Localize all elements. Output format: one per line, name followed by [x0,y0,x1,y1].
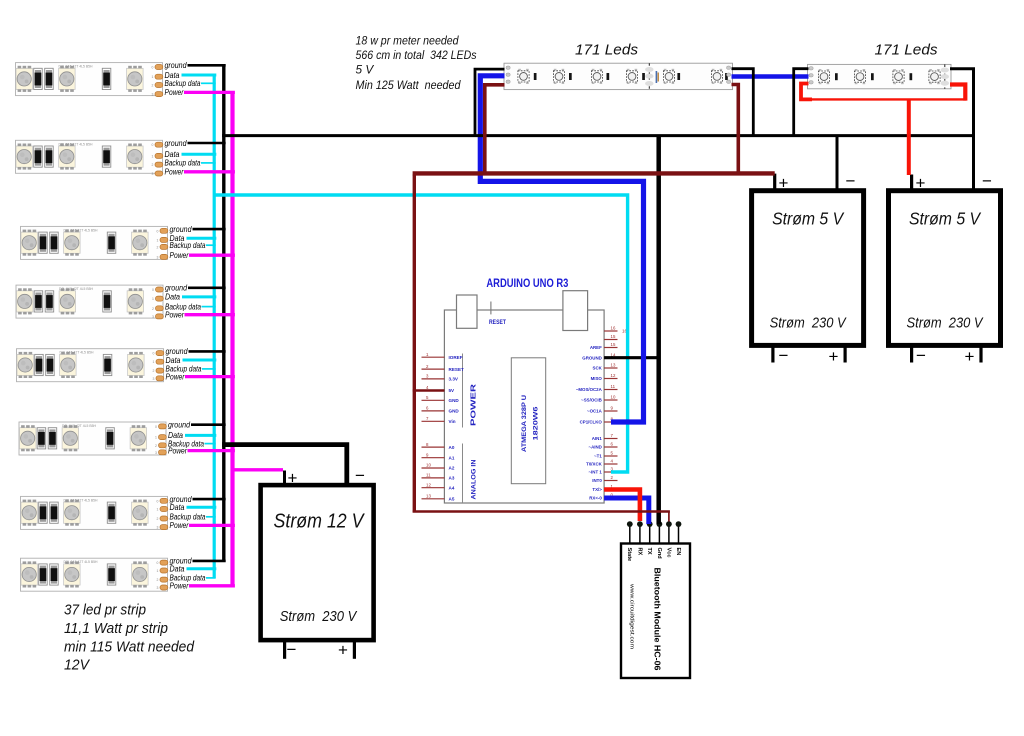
svg-text:0: 0 [152,66,154,70]
wire Data stub S1 [182,74,217,77]
svg-text:ground: ground [165,284,187,293]
svg-text:15: 15 [611,334,616,339]
svg-text:13: 13 [426,494,431,499]
wire Power stub S2 [184,170,235,173]
svg-text:16: 16 [611,326,616,331]
svg-text:~INT 1: ~INT 1 [588,470,602,475]
svg-text:~OC1A: ~OC1A [587,409,603,414]
wire ground stub S5 [189,350,226,353]
LED strip S7 [21,496,168,529]
wire Data stub S4 [182,295,216,298]
svg-text:+: + [965,347,975,366]
svg-text:2: 2 [157,578,159,582]
svg-text:+: + [779,174,789,193]
svg-text:3: 3 [152,93,154,97]
Arduino left pin stubs, numbers and labels [422,352,465,502]
wire Data stub S5 [183,359,217,362]
svg-text:Strøm 230 V: Strøm 230 V [907,315,984,331]
svg-text:Data: Data [165,150,180,159]
wire Backup-data stub S2 [201,162,216,164]
LED strip S3 [21,226,168,259]
power supply Str&#248;m 5 V (right) [889,191,1001,346]
annotation bottom 12V strip note [64,603,195,674]
svg-text:Data: Data [170,565,185,574]
svg-text:Data: Data [170,503,185,512]
svg-text:Data: Data [165,293,180,302]
wire maroon lower rail to BT Vcc [413,510,670,512]
svg-text:1820W6: 1820W6 [534,406,540,441]
LED strip T2 (171 Leds) [808,64,952,88]
wire blue strip T1 to strip T2 [732,74,809,78]
svg-text:Backup data: Backup data [165,79,201,88]
svg-text:State: State [626,548,632,562]
svg-text:5 V: 5 V [356,62,375,76]
wire red strip T2 loop [801,84,812,100]
wire Power stub S5 [185,375,235,378]
pin labels strip S1: ground Data Backup-data Power [165,61,201,97]
wire black ground bus vertical [222,65,225,561]
wire black to 12V supply - [222,445,347,486]
svg-text:Backup data: Backup data [165,159,201,168]
wire maroon to Arduino 5V pin [413,389,445,392]
Arduino power jack [563,291,588,331]
svg-text:www.circuitdigest.com: www.circuitdigest.com [629,584,635,649]
svg-text:1: 1 [153,360,155,364]
svg-text:Power: Power [170,582,189,591]
svg-text:3: 3 [153,377,155,381]
wire Power stub S4 [185,313,235,316]
svg-text:A1: A1 [449,455,455,460]
wire ground stub S7 [193,498,226,501]
svg-text:Gnd: Gnd [656,548,662,560]
svg-text:GND: GND [449,398,460,403]
svg-text:Power: Power [170,521,189,530]
wire Power stub S7 [189,524,235,527]
svg-text:566 cm in total 342 LEDs: 566 cm in total 342 LEDs [356,48,477,62]
svg-text:GND: GND [449,409,460,414]
wire maroon 5V rail vertical [413,175,416,513]
pin labels strip S3: ground Data Backup-data Power [170,225,206,260]
wire black strip T1 left to bus [475,69,505,136]
svg-text:EN: EN [675,548,681,556]
power supply Str&#248;m 12 V [261,485,374,640]
wire black bus to PSU1 - [836,135,839,191]
svg-text:CP1/CLKO: CP1/CLKO [580,420,603,425]
svg-text:A3: A3 [449,476,455,481]
wire black strip T2 left to bus [794,69,809,136]
svg-text:+: + [288,468,298,487]
svg-text:ANALOG IN: ANALOG IN [472,460,478,500]
svg-text:~AIND: ~AIND [589,445,602,450]
svg-text:Power: Power [165,168,184,177]
wire maroon strip T1 left [485,85,505,172]
pin labels strip S5: ground Data Backup-data Power [166,347,202,381]
svg-text:Vin: Vin [449,419,456,424]
svg-text:12: 12 [611,373,616,378]
Arduino USB connector [457,295,478,328]
svg-text:0: 0 [157,561,159,565]
svg-text:~MOS/OC2A: ~MOS/OC2A [576,387,603,392]
svg-text:0: 0 [152,143,154,147]
svg-text:12V: 12V [64,658,90,674]
wire Backup-data stub S3 [206,244,216,246]
LED strip T1 (171 Leds) [504,63,733,89]
LED strip S4 [16,285,163,319]
LED strip S1 [16,63,163,97]
svg-text:−: − [846,172,856,191]
svg-text:POWER: POWER [471,384,478,426]
svg-text:Power: Power [165,88,184,97]
svg-text:1: 1 [152,154,154,158]
svg-text:171 Leds: 171 Leds [875,42,938,59]
svg-text:ground: ground [165,139,187,148]
svg-text:SCK: SCK [593,366,603,371]
svg-text:0: 0 [155,425,157,429]
wire ground stub S6 [191,423,226,426]
wire ground stub S3 [193,228,226,231]
svg-text:Power: Power [165,311,184,320]
wire Backup-data stub S5 [202,368,216,370]
svg-text:~T1: ~T1 [594,454,602,459]
svg-text:RESET: RESET [489,320,506,326]
svg-text:Strøm 230 V: Strøm 230 V [770,315,847,331]
wire red to PSU2 + [907,99,911,175]
svg-text:3: 3 [152,315,154,319]
svg-text:10: 10 [611,395,616,400]
svg-text:1: 1 [152,297,154,301]
wire cyan Data bus vertical [213,75,216,578]
wire Data stub S6 [185,434,216,437]
ANALOG IN group bracket [462,444,464,504]
svg-text:1: 1 [157,238,159,242]
wire Backup-data stub S1 [201,82,216,84]
wire Backup-data stub S4 [202,306,216,308]
svg-text:−: − [982,172,992,191]
svg-text:Min 125 Watt needed: Min 125 Watt needed [356,78,461,92]
LED strip S6 [19,422,166,455]
svg-text:2: 2 [153,369,155,373]
svg-text:3.3V: 3.3V [449,377,459,382]
pin labels strip S7: ground Data Backup-data Power [170,495,206,530]
svg-text:2: 2 [157,245,159,249]
svg-text:RX: RX [636,548,642,556]
svg-text:0: 0 [157,229,159,233]
svg-text:1: 1 [157,508,159,512]
LED strip S8 [21,558,168,591]
wire ground stub S8 [193,560,226,563]
svg-text:3: 3 [155,451,157,455]
Arduino reset button [490,302,492,315]
wire red Arduino TX to BT RX [604,490,640,522]
pin labels strip S6: ground Data Backup-data Power [168,421,204,456]
svg-text:+: + [338,641,348,660]
svg-text:TX/>: TX/> [592,487,602,492]
svg-text:A5: A5 [449,497,455,502]
wire black strip T1 right to bus [732,69,754,136]
Bluetooth pins State RX TX Gnd Vcc EN [626,521,681,561]
wire Power stub S3 [189,254,235,257]
PSU1 terminals [773,172,856,367]
svg-text:+: + [916,174,926,193]
svg-text:171 Leds: 171 Leds [575,42,638,59]
svg-text:ARDUINO UNO R3: ARDUINO UNO R3 [486,278,568,290]
wire Power stub S1 [184,91,235,94]
svg-text:5V: 5V [449,388,456,393]
svg-text:1: 1 [152,75,154,79]
svg-text:−: − [355,466,365,485]
svg-text:ground: ground [168,421,190,430]
wire Power stub S6 [188,449,235,452]
svg-text:11: 11 [611,384,616,389]
svg-text:GROUND: GROUND [582,355,602,360]
svg-text:+: + [829,347,839,366]
wire maroon strip T1 right [732,85,739,173]
svg-text:−: − [916,346,926,365]
svg-text:INT0: INT0 [592,478,602,483]
svg-text:Power: Power [166,372,185,381]
svg-text:A2: A2 [449,466,455,471]
svg-text:1: 1 [157,569,159,573]
svg-text:Vcc: Vcc [665,548,671,558]
svg-text:Data: Data [166,356,181,365]
op-amp/board Arduino UNO R3 [444,278,604,503]
svg-text:MISO: MISO [591,376,603,381]
wire cyan Data to Arduino ~INT1 [214,195,628,472]
svg-text:3: 3 [157,526,159,530]
wire blue 5V-data link strip T1 to Arduino CP1/CLKO [480,76,643,422]
pin labels strip S4: ground Data Backup-data Power [165,284,201,320]
svg-text:2: 2 [152,163,154,167]
svg-text:−: − [287,640,297,659]
svg-text:3: 3 [157,255,159,259]
pin labels strip S2: ground Data Backup-data Power [165,139,201,177]
PSU2 terminals [912,172,992,367]
svg-text:2: 2 [152,84,154,88]
svg-text:Bluetooth Module HC-06: Bluetooth Module HC-06 [653,568,663,671]
svg-text:ground: ground [165,61,187,70]
svg-text:IOREF: IOREF [449,355,463,360]
wire maroon 5V rail horizontal to PSU1 + [413,171,775,175]
wire black ground bus to BT Gnd [656,136,661,524]
wire Backup-data stub S7 [206,516,216,518]
svg-text:10: 10 [426,463,431,468]
svg-text:13: 13 [611,363,616,368]
12V box terminals + - top, - + bottom [285,466,366,660]
svg-text:~SS/OCIB: ~SS/OCIB [581,398,602,403]
svg-text:Strøm 5 V: Strøm 5 V [909,209,982,229]
svg-text:Strøm 12 V: Strøm 12 V [274,511,365,533]
wire Backup-data stub S6 [205,443,216,445]
annotation top power note [356,33,477,92]
svg-text:18 w pr meter needed: 18 w pr meter needed [356,33,459,47]
svg-text:AIN1: AIN1 [592,436,603,441]
wire black Arduino GROUND pin to ground net [604,356,660,359]
wire Data stub S8 [187,567,217,570]
svg-text:2: 2 [155,444,157,448]
Arduino right pin stubs, numbers and labels [576,326,628,501]
wire blue Arduino RX to BT TX [604,498,649,524]
LED strip S2 [16,140,163,176]
wire magenta to 12V supply + [232,468,284,471]
wire ground stub S4 [188,286,226,289]
svg-text:RESET: RESET [449,367,465,372]
ATMEGA 328P chip [511,358,545,484]
svg-text:RX<-0: RX<-0 [589,496,602,501]
pin labels strip S8: ground Data Backup-data Power [170,557,206,591]
svg-text:12: 12 [426,482,431,487]
svg-text:3: 3 [157,586,159,590]
svg-text:TX: TX [646,548,652,555]
wire magenta Power bus vertical [230,92,234,585]
svg-text:ground: ground [170,225,192,234]
svg-text:11: 11 [426,473,431,478]
svg-text:1: 1 [155,436,157,440]
svg-text:Strøm 5 V: Strøm 5 V [772,209,845,229]
wire Power stub S8 [189,584,235,587]
wire black top ground bus [222,134,973,137]
svg-text:2: 2 [152,307,154,311]
wire black strip T2 right to bus and PSU2 - [950,69,974,191]
svg-text:0: 0 [153,352,155,356]
svg-text:A0: A0 [449,445,455,450]
svg-text:−: − [779,346,789,365]
svg-text:Backup data: Backup data [170,241,206,250]
svg-text:2: 2 [157,517,159,521]
svg-text:11,1 Watt pr strip: 11,1 Watt pr strip [64,621,168,637]
svg-text:AREF: AREF [590,345,602,350]
svg-text:15: 15 [611,342,616,347]
wire Backup-data stub S8 [206,577,216,579]
Bluetooth Module HC-06 [621,544,690,679]
svg-text:Power: Power [170,251,189,260]
svg-text:Strøm 230 V: Strøm 230 V [280,608,358,625]
svg-text:0: 0 [157,499,159,503]
wire ground stub S1 [188,64,226,67]
svg-text:min 115 Watt needed: min 115 Watt needed [64,640,195,656]
LED strip S5 [17,349,164,382]
wire Data stub S7 [187,506,217,509]
svg-text:Power: Power [168,446,187,455]
power supply Str&#248;m 5 V (left) [752,191,864,346]
wire Data stub S2 [182,153,217,156]
svg-text:T0/XCK: T0/XCK [586,462,602,467]
svg-text:3: 3 [152,172,154,176]
POWER group bracket [462,354,464,428]
svg-text:37 led pr strip: 37 led pr strip [64,603,146,619]
wire ground stub S2 [188,142,226,145]
svg-text:ATMEGA 328P U: ATMEGA 328P U [522,395,528,452]
wire Data stub S3 [187,237,217,240]
svg-text:A4: A4 [449,485,455,490]
svg-text:0: 0 [152,288,154,292]
